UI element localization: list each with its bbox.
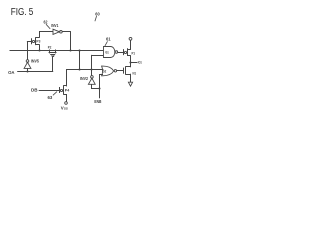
svg-text:OA: OA: [8, 70, 15, 75]
svg-text:IO1: IO1: [138, 61, 142, 65]
svg-text:SS: SS: [64, 106, 68, 110]
svg-text:ENB: ENB: [94, 99, 101, 104]
svg-text:INV1: INV1: [51, 23, 59, 28]
svg-text:INV2: INV2: [80, 76, 89, 81]
svg-text:DB: DB: [31, 87, 38, 92]
svg-text:FIG. 5: FIG. 5: [11, 7, 34, 18]
svg-text:G2: G2: [103, 68, 107, 73]
svg-text:60: 60: [95, 12, 100, 17]
svg-text:INV5: INV5: [31, 58, 40, 63]
svg-text:P4: P4: [65, 89, 70, 93]
svg-text:G1: G1: [105, 50, 109, 55]
svg-text:N1: N1: [133, 72, 137, 76]
svg-text:61: 61: [106, 37, 111, 42]
svg-text:63: 63: [48, 95, 53, 100]
svg-text:P2: P2: [48, 45, 52, 50]
svg-text:P1: P1: [132, 51, 136, 55]
svg-text:62: 62: [44, 19, 48, 24]
svg-text:P3: P3: [36, 38, 41, 43]
